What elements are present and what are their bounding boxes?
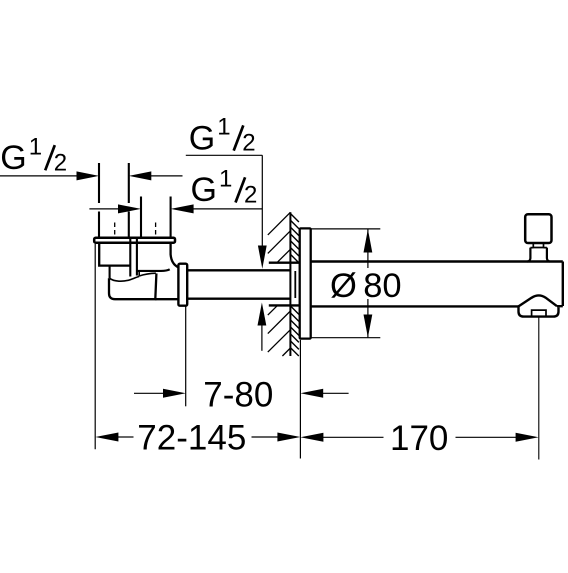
casting line left (wavy)	[110, 276, 140, 281]
outlet housing	[519, 306, 559, 316]
extension line union left	[94, 244, 96, 449]
inlet pipe 2 (right supply pipe)	[141, 197, 171, 237]
extension line wall face	[299, 340, 301, 459]
inlet pipe 1 (left supply pipe)	[99, 163, 129, 237]
svg-text:Ø: Ø	[330, 267, 357, 305]
svg-text:170: 170	[390, 419, 448, 458]
pipe end face in wall	[294, 271, 296, 298]
centerline pipe 1	[114, 223, 116, 237]
wall flange escutcheon	[300, 228, 311, 338]
arrow right at pipe1 left	[77, 171, 100, 180]
wall line	[289, 212, 291, 356]
aerator notch	[532, 310, 546, 316]
union nut top bar	[94, 238, 175, 243]
centerline pipe 2	[155, 223, 157, 237]
dimension 72-145	[95, 433, 118, 442]
arrow left at pipe2 right	[171, 204, 194, 213]
arrow down at wall socket	[258, 246, 267, 269]
arrow right at pipe2 left	[118, 204, 141, 213]
elbow lower body	[109, 273, 156, 299]
svg-text:80: 80	[363, 267, 401, 305]
dimension G1/2 no.2 leader	[186, 155, 262, 246]
left body step	[109, 266, 111, 279]
left union nut body	[99, 243, 130, 266]
wall socket top line	[269, 262, 299, 264]
dia 80 dimension line lower	[367, 299, 369, 337]
knob neck	[530, 247, 547, 249]
svg-text:1: 1	[29, 133, 42, 160]
label G1/2 no.3	[191, 166, 258, 210]
svg-text:G: G	[0, 139, 26, 177]
wall hatch upper	[268, 212, 291, 262]
pipe bottom between elbow and collar	[155, 298, 178, 300]
dimension 7-80	[134, 392, 164, 394]
arrow left at pipe1 right	[129, 171, 152, 180]
label G1/2 no.2	[189, 114, 256, 158]
svg-text:2: 2	[54, 149, 67, 176]
right union nut body	[171, 243, 179, 267]
svg-text:G: G	[191, 171, 217, 209]
outlet dome	[519, 295, 558, 306]
label G1/2 no.1	[0, 133, 67, 177]
svg-text:7-80: 7-80	[203, 376, 273, 415]
knob tab	[533, 243, 543, 248]
svg-text:1: 1	[217, 114, 230, 141]
svg-text:72-145: 72-145	[137, 419, 246, 458]
horizontal connection pipe	[187, 269, 289, 271]
svg-text:2: 2	[242, 130, 255, 157]
arrow down	[364, 315, 373, 338]
arrow up at wall socket	[258, 303, 267, 326]
wall plaster ticks lower	[290, 306, 299, 356]
svg-text:1: 1	[219, 166, 232, 193]
spout tube bottom	[311, 305, 519, 307]
dimension G1/2 no.3 line	[89, 208, 119, 210]
diverter knob	[525, 214, 551, 243]
union collar	[178, 264, 187, 306]
arrow up	[364, 229, 373, 252]
dimension 170	[300, 433, 323, 442]
dia 80 extension lines	[311, 229, 381, 338]
outlet center line	[538, 317, 540, 460]
union divider lines	[130, 238, 137, 277]
svg-text:G: G	[189, 119, 215, 157]
dimension G1/2 no.1 leader line	[0, 175, 78, 177]
casting line right	[139, 271, 156, 276]
wall hatch lower	[268, 305, 291, 356]
spout tube top	[311, 260, 563, 262]
dia 80 dimension line upper	[367, 230, 369, 269]
spout tube end	[557, 262, 563, 307]
wall plaster ticks upper	[290, 214, 299, 263]
wall socket bottom line	[269, 304, 299, 306]
extension line collar	[185, 306, 187, 407]
svg-text:2: 2	[244, 182, 257, 209]
